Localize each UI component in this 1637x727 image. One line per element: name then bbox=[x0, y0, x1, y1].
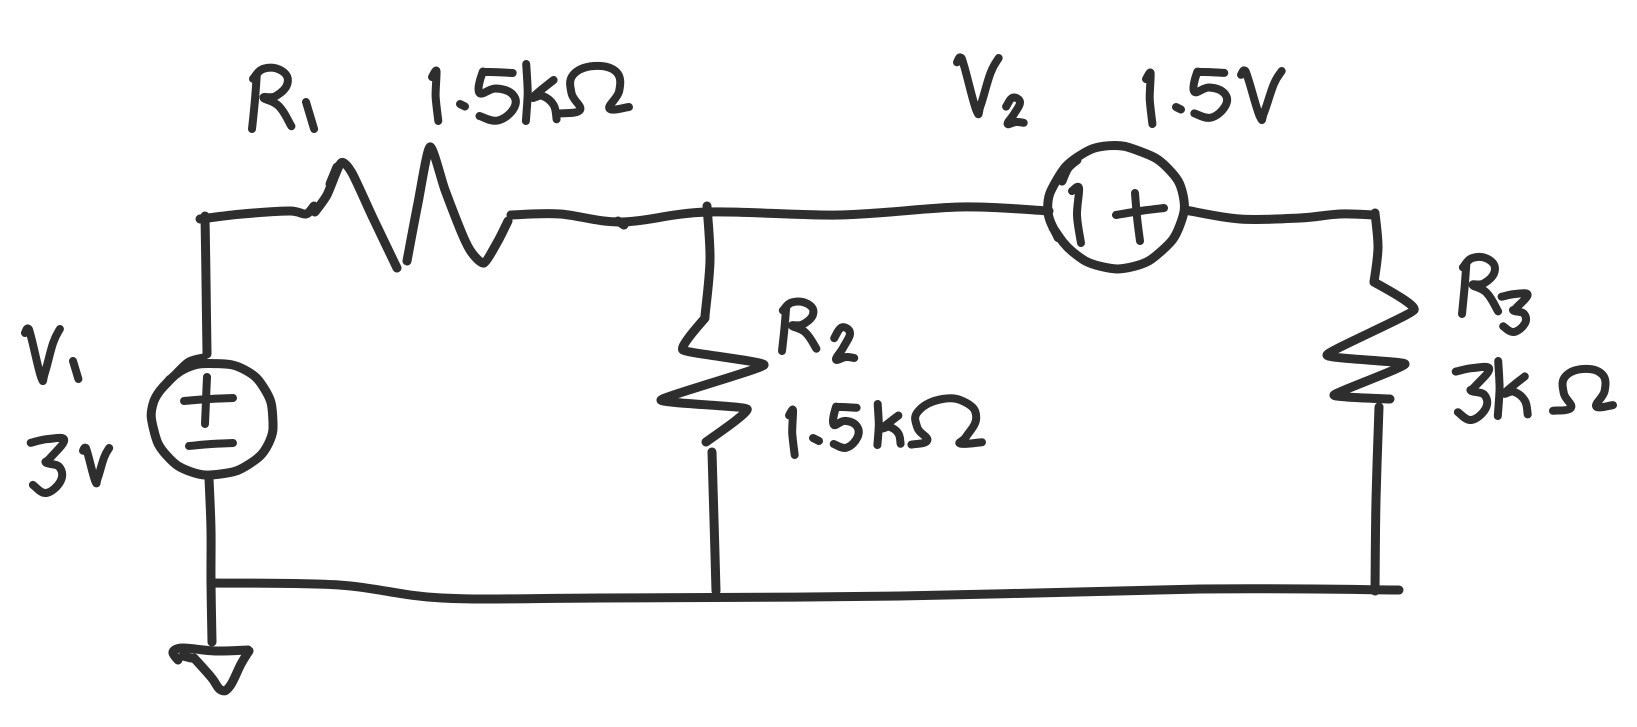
wire top right bbox=[1185, 210, 1375, 220]
label V2 bbox=[957, 57, 1024, 124]
wire bottom bbox=[211, 583, 1399, 599]
voltage source V2 circle bbox=[1048, 145, 1185, 269]
V2 circle start nub bbox=[1062, 160, 1077, 181]
resistor R1 zigzag left half bbox=[315, 162, 397, 268]
ground symbol bbox=[173, 648, 249, 691]
label R2 bbox=[782, 301, 854, 359]
label R2 value 1.5kOhm bbox=[789, 398, 982, 455]
wire R2 vertical lower bbox=[712, 452, 716, 591]
label V1 bbox=[25, 328, 78, 381]
wire top middle bbox=[511, 207, 1049, 222]
label R3 bbox=[1462, 257, 1528, 332]
label R1 value 1.5kOhm bbox=[432, 64, 629, 121]
wire right vertical upper bbox=[1374, 213, 1378, 282]
wire left vertical (V1 top lead) bbox=[205, 216, 207, 354]
V2 minus terminal mark bbox=[1072, 187, 1081, 243]
label R3 value 3kOhm bbox=[1456, 361, 1613, 420]
wire top-left horizontal bbox=[200, 206, 314, 219]
resistor R1 retrace stroke bbox=[330, 167, 337, 184]
label R1 bbox=[252, 68, 314, 129]
label V1 value 3V bbox=[31, 438, 110, 493]
wire V1 bottom lead bbox=[209, 478, 212, 642]
V1 minus sign bbox=[189, 443, 233, 446]
resistor R1 zigzag right half bbox=[407, 147, 508, 263]
wire right vertical lower bbox=[1375, 407, 1379, 591]
V2 plus sign bbox=[1116, 193, 1164, 241]
voltage source V1 circle bbox=[151, 358, 273, 475]
resistor R3 zigzag bbox=[1327, 282, 1414, 399]
V1 plus sign bbox=[184, 377, 233, 424]
wire joint tick bbox=[618, 221, 624, 225]
resistor R2 zigzag bbox=[661, 318, 764, 442]
label V2 value 1.5V bbox=[1146, 70, 1282, 124]
wire R2 vertical upper bbox=[705, 206, 710, 316]
